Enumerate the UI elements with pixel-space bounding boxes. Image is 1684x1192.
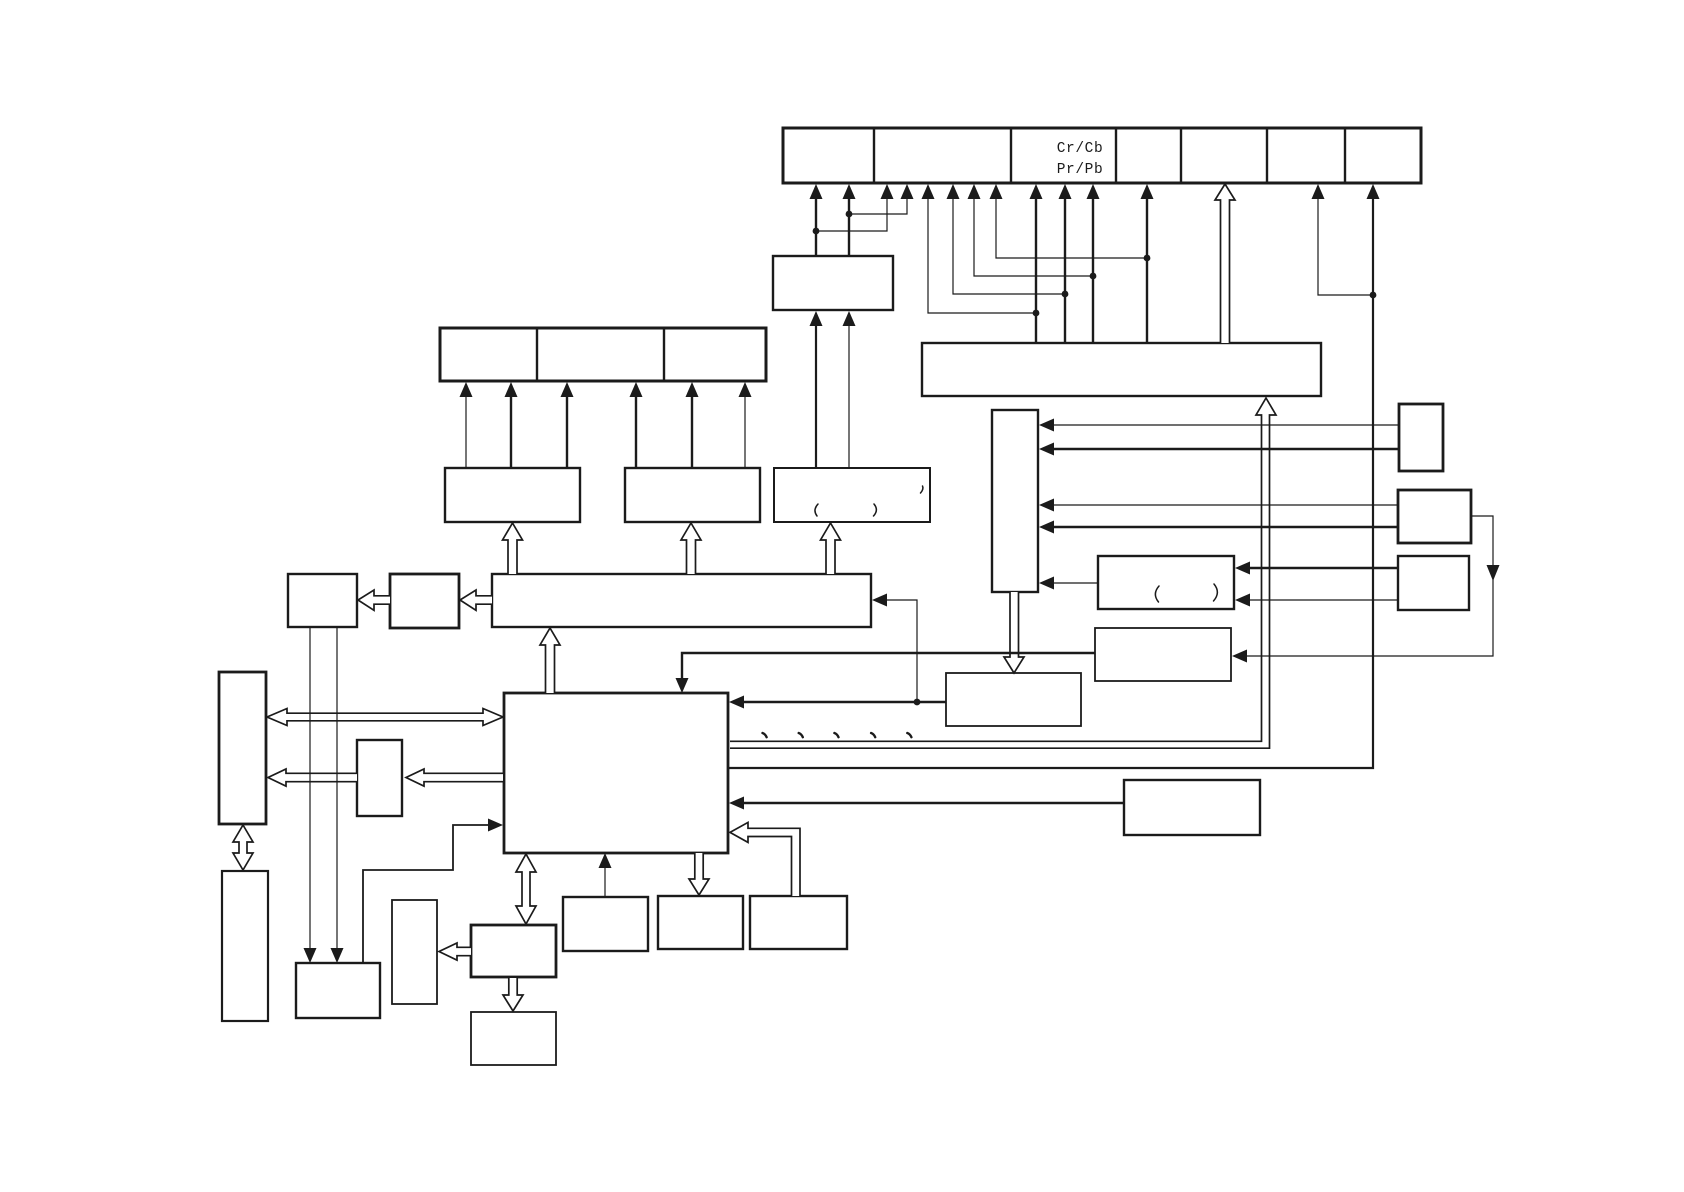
junction node at 849,214	[846, 211, 853, 218]
block: left connector bar (3 cells)	[440, 328, 766, 381]
junction node at 1147,258	[1144, 255, 1151, 262]
bar cell divider 3	[1115, 128, 1117, 183]
arrowhead right into main chip at y825	[488, 819, 503, 832]
hollow arrow: box D left into box L	[268, 769, 357, 786]
wire: long box LB to bar arrow at 1093	[1092, 196, 1094, 344]
arrowhead left into main chip at y702	[729, 696, 744, 709]
arrowhead up into bar at 1065	[1059, 184, 1072, 199]
junction node at 1065,294	[1062, 291, 1069, 298]
block N: box under M	[1095, 628, 1231, 681]
wire: branch from node 1093 up to bar	[974, 196, 1093, 276]
wire: branch from node 816 up to bar	[816, 196, 887, 231]
wire: box R2 to TR thick	[1052, 526, 1398, 528]
hollow arrow: bidirectional between main chip and box Q	[516, 854, 536, 924]
hollow arrow: box B left into box A	[358, 590, 390, 610]
wire: long box LB to bar arrow at 1147	[1146, 196, 1148, 344]
wire: box G to bar2 arrow 3	[744, 394, 746, 468]
hollow arrow: box C up into box G	[681, 523, 701, 574]
arrowhead up into bar at 887	[881, 184, 894, 199]
arrowhead up into bar2 at 466	[460, 382, 473, 397]
arrowhead up into bar2 at 636	[630, 382, 643, 397]
block Q: keypad box	[471, 925, 556, 977]
bar2 divider 2	[663, 328, 665, 381]
wire: box O to main chip right	[742, 701, 946, 703]
bar cell divider 4	[1180, 128, 1182, 183]
junction node at 1036,313	[1033, 310, 1040, 317]
junction node at 917,702	[914, 699, 921, 706]
block B: small box	[390, 574, 459, 628]
block TR: tall right interface box	[992, 410, 1038, 592]
wire: box V to bar arrow 2	[848, 196, 850, 257]
block Y: box under Q	[471, 1012, 556, 1065]
block R2: right middle input box	[1398, 490, 1471, 543]
hollow arrow: box C up into box H	[821, 523, 841, 574]
wire: box R3 to box M thin	[1248, 599, 1398, 601]
block A: small box	[288, 574, 357, 627]
svg-text:Cr/Cb: Cr/Cb	[1057, 141, 1104, 157]
hollow arrow: main chip right side up into long box LB (L-shaped bus)	[730, 398, 1276, 748]
wire: box R1 to TR thick	[1052, 448, 1398, 450]
wire: box R2 to TR thin	[1052, 504, 1398, 506]
wire: box R2 loop down to box N	[1245, 516, 1493, 656]
block E: tall memory box lower left	[222, 871, 268, 1021]
wire: box V to bar arrow 1	[815, 196, 817, 257]
hollow arrow: main chip up into box C	[540, 628, 560, 693]
block LB: long driver box	[922, 343, 1321, 396]
arrowhead down mid-wire on R2 loop	[1487, 565, 1500, 581]
arrowhead up into bar at 1318	[1312, 184, 1325, 199]
wire: box M to TR	[1052, 582, 1098, 584]
hollow arrow: box C up into box F	[503, 523, 523, 574]
arrowhead up into main chip bottom at 605	[599, 853, 612, 868]
wire: branch from node 1373 up to bar at 1318	[1318, 196, 1373, 295]
block M: box with parentheses	[1098, 556, 1234, 609]
wire: branch from node 1036 up to bar	[928, 196, 1036, 313]
hollow arrow: main chip left into box D	[406, 769, 503, 786]
arrowhead up into box V at 816	[810, 311, 823, 326]
arrowhead left into main chip at y803	[729, 797, 744, 810]
hollow arrow: TR box down into box O	[1004, 592, 1024, 673]
block H: amplifier box right with parentheses	[774, 468, 930, 522]
arrowhead up into bar at 928	[922, 184, 935, 199]
arrowhead up into bar2 at 511	[505, 382, 518, 397]
arrowhead up into bar at 849	[843, 184, 856, 199]
label: right parenthesis in box M	[1214, 584, 1218, 601]
wire: box F to bar2 arrow 1	[465, 394, 467, 468]
block R: bottom box 1	[563, 897, 648, 951]
block O: box feeding main chip	[946, 673, 1081, 726]
block L: tall memory box left	[219, 672, 266, 824]
block T: bottom box 3	[750, 896, 847, 949]
wire: box N left to main chip top	[682, 653, 1095, 679]
bar cell divider 6	[1344, 128, 1346, 183]
wire: box R up to main chip bottom	[604, 866, 606, 896]
block X: bottom left box	[296, 963, 380, 1018]
hollow arrow: main chip down into box S	[689, 853, 709, 895]
wire: long box LB to bar arrow at 1036	[1035, 196, 1037, 344]
hollow arrow: box T up and left into main chip (L-shaped)	[730, 822, 800, 896]
arrowhead down into box X at 337	[331, 948, 344, 963]
block R1: right small input box	[1399, 404, 1443, 471]
wire: box R3 to box M thick	[1248, 567, 1398, 569]
wire: branch from node 1065 up to bar	[953, 196, 1065, 294]
label: right parenthesis in box H	[874, 504, 877, 516]
hollow arrow: box Q down into box Y	[503, 978, 523, 1011]
junction node at 1373,295	[1370, 292, 1377, 299]
arrowhead down into box X at 310	[304, 948, 317, 963]
label: left parenthesis in box M	[1155, 586, 1159, 602]
wire: branch from node 1147 up to bar	[996, 196, 1147, 258]
block D: small relay box	[357, 740, 402, 816]
arrowhead up into bar at 1373	[1367, 184, 1380, 199]
block C: wide processor box	[492, 574, 871, 627]
arrowhead up into bar at 907	[901, 184, 914, 199]
block G: amplifier box middle	[625, 468, 760, 522]
wire: node 917 up to box C right edge	[885, 600, 917, 701]
arrowhead up into bar at 1093	[1087, 184, 1100, 199]
hollow arrow: bidirectional between box L and box E	[233, 825, 253, 870]
wire: box G to bar2 arrow 2	[691, 394, 693, 468]
arrowhead up into bar at 974	[968, 184, 981, 199]
wire: branch from node 849 up to bar	[849, 196, 907, 214]
arrowhead up into bar at 1147	[1141, 184, 1154, 199]
arrowhead left into box C right edge at y600	[872, 594, 887, 607]
arrowhead left into box M at y600	[1235, 594, 1250, 607]
junction node at 1093,276	[1090, 273, 1097, 280]
wire: long box LB to bar arrow at 1065	[1064, 196, 1066, 344]
wire: box G to bar2 arrow 1	[635, 394, 637, 468]
bar cell divider 2	[1010, 128, 1012, 183]
block V: video switch box	[773, 256, 893, 310]
wire: box X up elbow to main chip left	[363, 825, 489, 963]
arrowhead down into main chip top at 682	[676, 678, 689, 693]
arrowhead left into TR at y583	[1039, 577, 1054, 590]
wire: box A down to box X line 1	[309, 628, 311, 949]
arrowhead up into bar at 1036	[1030, 184, 1043, 199]
wire: box A down to box X line 2	[336, 628, 338, 949]
label: comma in box H	[921, 486, 923, 493]
wire: main chip right output to bar at 1373	[729, 196, 1373, 768]
bar2 divider 1	[536, 328, 538, 381]
wire: box P to main chip right	[742, 802, 1124, 804]
arrowhead up into bar2 at 745	[739, 382, 752, 397]
block BB: main controller chip	[504, 693, 728, 853]
arrowhead left into box M at y568	[1235, 562, 1250, 575]
label: ideographic comma ticks right of main chip	[763, 733, 912, 737]
arrowhead left into box N at y656	[1232, 650, 1247, 663]
arrowhead up into bar at 816	[810, 184, 823, 199]
arrowhead up into bar2 at 692	[686, 382, 699, 397]
hollow arrow: bidirectional bus between box L and main chip	[267, 709, 503, 726]
wire: box R1 to TR thin	[1052, 424, 1399, 426]
wire: box H up to box V thick	[815, 324, 817, 468]
hollow arrow: long box LB up to top bar	[1215, 184, 1235, 343]
svg-text:Pr/Pb: Pr/Pb	[1057, 162, 1104, 178]
bar cell divider 5	[1266, 128, 1268, 183]
block: top output connector bar	[783, 128, 1421, 183]
arrowhead left into TR at y449	[1039, 443, 1054, 456]
hollow arrow: box C left into box B	[460, 590, 492, 610]
arrowhead up into bar2 at 567	[561, 382, 574, 397]
block P: box right of main chip	[1124, 780, 1260, 835]
block T2: tall bottom middle box	[392, 900, 437, 1004]
wire: box F to bar2 arrow 3	[566, 394, 568, 468]
bar cell divider 1	[873, 128, 875, 183]
wire: box F to bar2 arrow 2	[510, 394, 512, 468]
junction node at 816,231	[813, 228, 820, 235]
block R3: right lower input box	[1398, 556, 1469, 610]
block S: bottom box 2	[658, 896, 743, 949]
hollow arrow: box Q left into box T2	[439, 943, 471, 960]
arrowhead left into TR at y527	[1039, 521, 1054, 534]
wire: box H up to box V thin	[848, 324, 850, 468]
arrowhead up into bar at 996	[990, 184, 1003, 199]
block F: amplifier box left	[445, 468, 580, 522]
arrowhead up into box V at 849	[843, 311, 856, 326]
label: left parenthesis in box H	[815, 504, 818, 516]
arrowhead left into TR at y505	[1039, 499, 1054, 512]
arrowhead up into bar at 953	[947, 184, 960, 199]
arrowhead left into TR at y425	[1039, 419, 1054, 432]
